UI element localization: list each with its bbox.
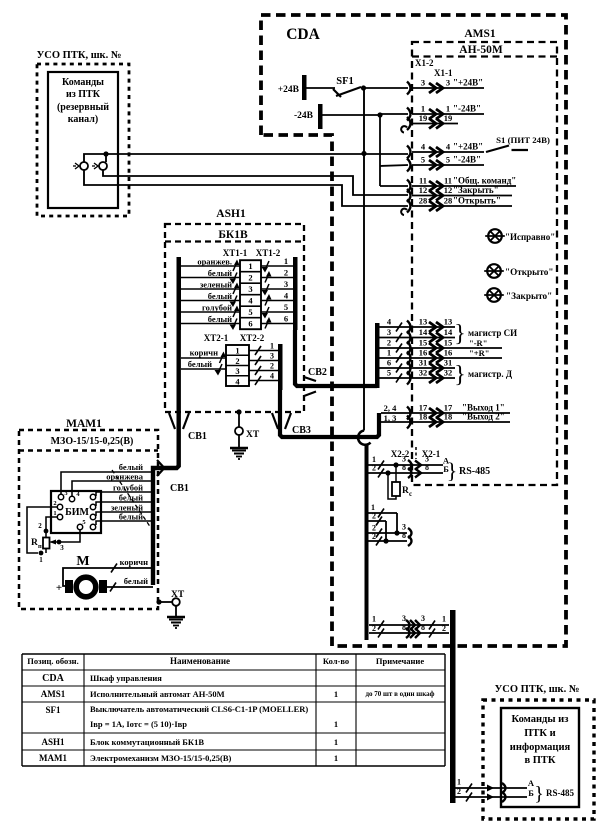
svg-text:ХТ1-2: ХТ1-2 bbox=[256, 248, 281, 258]
svg-text:ХТ: ХТ bbox=[171, 590, 185, 600]
connector X1-1 label bbox=[434, 68, 453, 78]
svg-text:15: 15 bbox=[419, 338, 428, 348]
svg-text:}: } bbox=[454, 362, 466, 388]
svg-text:"Общ. команд": "Общ. команд" bbox=[453, 176, 516, 186]
svg-text:1: 1 bbox=[235, 346, 239, 356]
terminal block XT2-2 label bbox=[240, 333, 265, 343]
resistor Rп (potentiometer) bbox=[31, 517, 58, 564]
svg-text:СВ2: СВ2 bbox=[308, 367, 327, 378]
unit АН-50М dashed outline bbox=[412, 42, 557, 485]
terminal XT of БК1В bbox=[235, 409, 260, 440]
svg-text:ASH1: ASH1 bbox=[41, 737, 65, 747]
svg-text:12: 12 bbox=[419, 185, 428, 195]
svg-text:БК1В: БК1В bbox=[218, 229, 248, 241]
svg-text:6: 6 bbox=[387, 358, 391, 368]
cable gland СВ2 bbox=[304, 367, 327, 396]
label CDA bbox=[286, 26, 320, 43]
svg-text:2: 2 bbox=[457, 787, 461, 796]
БИМ terminals bbox=[53, 490, 95, 530]
connector X1 pin 5 «−24В» bbox=[407, 155, 484, 172]
svg-text:CDA: CDA bbox=[286, 26, 320, 43]
table header bbox=[27, 656, 424, 666]
label «+R» bbox=[469, 348, 489, 358]
cable bar XT1 left bbox=[177, 257, 182, 330]
unit БК1В dashed outline bbox=[165, 224, 304, 412]
wire XT1 row 1 (оранжев.) bbox=[181, 256, 293, 273]
svg-text:белый: белый bbox=[188, 359, 212, 369]
svg-text:28: 28 bbox=[419, 196, 428, 206]
svg-text:2, 4: 2, 4 bbox=[384, 403, 398, 413]
svg-text:(резервный: (резервный bbox=[57, 102, 109, 113]
svg-text:оранжев.: оранжев. bbox=[197, 257, 232, 267]
svg-text:"Закрыть": "Закрыть" bbox=[453, 185, 499, 195]
terminal XT of МАМ1 bbox=[156, 590, 184, 606]
svg-text:канал): канал) bbox=[68, 114, 98, 125]
svg-text:Позиц. обозн.: Позиц. обозн. bbox=[27, 656, 78, 666]
svg-text:1: 1 bbox=[53, 510, 56, 517]
svg-text:Выключатель автоматический CLS: Выключатель автоматический CLS6-C1-1P (M… bbox=[90, 704, 308, 714]
svg-text:31: 31 bbox=[419, 358, 428, 368]
wire motor коричн bbox=[63, 557, 153, 586]
terminal +24В bbox=[278, 75, 307, 100]
svg-text:2: 2 bbox=[372, 624, 376, 633]
cabinet CDA dashed outline bbox=[261, 15, 566, 646]
unit AMS1 label bbox=[464, 28, 496, 40]
svg-text:1: 1 bbox=[387, 348, 391, 358]
wire X2 spur row 3 bbox=[368, 523, 412, 539]
svg-text:"Открыть": "Открыть" bbox=[453, 196, 501, 206]
cable bar XT1 right bbox=[293, 257, 298, 330]
svg-text:3: 3 bbox=[284, 279, 288, 289]
parts table grid bbox=[22, 654, 445, 766]
cable bar XT2 right bbox=[278, 344, 283, 390]
terminal block XT1-1 label bbox=[223, 248, 248, 258]
cable core bar (СВ2 fan-out) bbox=[375, 323, 380, 388]
terminal block XT1-2 label bbox=[256, 248, 281, 258]
svg-text:2: 2 bbox=[372, 512, 376, 521]
wire SF1 to pin 3 bbox=[363, 87, 408, 89]
svg-text:1: 1 bbox=[39, 556, 43, 564]
svg-text:}: } bbox=[454, 321, 466, 347]
svg-text:"Закрыто": "Закрыто" bbox=[506, 291, 552, 301]
connector X1 pin 4 «+24В» bbox=[407, 142, 484, 159]
svg-text:1: 1 bbox=[421, 104, 425, 114]
wire X2 row A bbox=[368, 455, 450, 471]
resistor Rc bbox=[388, 465, 412, 499]
svg-text:11: 11 bbox=[444, 176, 452, 186]
svg-text:6: 6 bbox=[248, 319, 252, 329]
svg-text:-24В: -24В bbox=[294, 111, 314, 121]
svg-text:МЗО-15/15-0,25(В): МЗО-15/15-0,25(В) bbox=[51, 436, 134, 447]
svg-text:Шкаф управления: Шкаф управления bbox=[90, 673, 162, 683]
label БК1В title band bbox=[165, 229, 304, 242]
wire +24V to SF1 bbox=[306, 87, 335, 89]
svg-text:с: с bbox=[409, 490, 412, 498]
connector X1 pin 28 «Открыть» bbox=[401, 196, 512, 216]
table row MAM1 bbox=[39, 753, 338, 763]
svg-text:32: 32 bbox=[419, 368, 428, 378]
svg-text:Блок коммутационный БК1В: Блок коммутационный БК1В bbox=[90, 737, 204, 747]
svg-text:15: 15 bbox=[444, 338, 453, 348]
cable СВ2 (XT1-2 to pins 13..32) bbox=[295, 330, 377, 386]
terminal block XT1 (cells 1-6) bbox=[240, 260, 261, 329]
wire −24V rail to pin 5 bbox=[380, 165, 408, 166]
connector X1 pin 12 «Закрыть» bbox=[407, 185, 512, 202]
svg-text:1: 1 bbox=[284, 256, 288, 266]
svg-text:2: 2 bbox=[235, 356, 239, 366]
svg-text:"+R": "+R" bbox=[469, 348, 489, 358]
svg-text:"-24В": "-24В" bbox=[453, 104, 481, 114]
connector X1 pin 18 «Выход 2» bbox=[381, 412, 510, 429]
svg-text:белый: белый bbox=[208, 314, 232, 324]
dashed enclosure УСО ПТК (bottom-right) bbox=[483, 700, 594, 819]
wire +24V vertical rail down bbox=[363, 88, 365, 431]
svg-text:18: 18 bbox=[419, 412, 428, 422]
connector X2-1 label bbox=[422, 449, 441, 459]
dashed enclosure УСО ПТК (top-left) bbox=[37, 64, 129, 216]
indicator lamp «Исправно» bbox=[485, 229, 555, 243]
terminal block XT2 (cells 1-4) bbox=[226, 345, 249, 386]
svg-text:3: 3 bbox=[421, 78, 425, 88]
svg-text:}: } bbox=[534, 783, 544, 805]
unit МАМ1 label bbox=[66, 418, 102, 430]
svg-text:БИМ: БИМ bbox=[65, 507, 89, 518]
svg-text:СВ1: СВ1 bbox=[170, 483, 189, 494]
brace RS-485 bbox=[447, 458, 490, 483]
svg-text:Кол-во: Кол-во bbox=[323, 656, 349, 666]
svg-text:14: 14 bbox=[419, 327, 428, 337]
cable СВ1 (XT1-1 to МАМ1) bbox=[153, 330, 179, 585]
wire МАМ1 белый (2) bbox=[96, 493, 153, 507]
svg-text:5: 5 bbox=[284, 302, 288, 312]
svg-text:1: 1 bbox=[334, 753, 338, 763]
label АН-50М title band bbox=[412, 44, 557, 57]
wire −24V rail to pin 11 bbox=[380, 185, 408, 187]
svg-text:1: 1 bbox=[372, 615, 376, 624]
svg-text:1: 1 bbox=[334, 719, 338, 729]
terminal −24В bbox=[294, 104, 323, 129]
svg-text:13: 13 bbox=[444, 317, 453, 327]
svg-text:X1-1: X1-1 bbox=[434, 68, 453, 78]
switch S1 (ПИТ 24В) bbox=[486, 135, 550, 152]
svg-text:ХТ2-2: ХТ2-2 bbox=[240, 333, 265, 343]
wire X2 spur pin 1 bbox=[368, 503, 397, 533]
wire XT2 out pin 3 bbox=[249, 352, 278, 366]
unit ASH1 label bbox=[216, 208, 246, 220]
svg-text:3: 3 bbox=[270, 352, 274, 361]
svg-text:информация: информация bbox=[510, 742, 571, 753]
contact K2 (right output contact) bbox=[92, 162, 107, 170]
connector X1 pin 31 wire bbox=[379, 358, 455, 375]
table row ASH1 bbox=[41, 737, 338, 747]
svg-text:SF1: SF1 bbox=[45, 705, 61, 715]
svg-text:19: 19 bbox=[444, 113, 453, 123]
svg-text:16: 16 bbox=[419, 348, 428, 358]
svg-text:AMS1: AMS1 bbox=[41, 689, 66, 699]
svg-text:3: 3 bbox=[421, 614, 425, 623]
wire МАМ1 белый (3) bbox=[96, 512, 153, 526]
label + polarity bbox=[56, 582, 62, 594]
svg-text:МАМ1: МАМ1 bbox=[66, 418, 102, 430]
motor armature bbox=[65, 577, 107, 597]
svg-text:голубой: голубой bbox=[113, 483, 143, 493]
wire X2 spur pin 2 bbox=[368, 512, 386, 542]
svg-text:3: 3 bbox=[446, 78, 450, 88]
svg-text:Команды: Команды bbox=[62, 77, 104, 88]
svg-text:магистр СИ: магистр СИ bbox=[468, 328, 517, 338]
svg-text:СВ1: СВ1 bbox=[188, 431, 207, 442]
svg-text:"Выход 2": "Выход 2" bbox=[462, 412, 505, 422]
svg-text:CDA: CDA bbox=[42, 673, 64, 684]
wire БИМ to Rп terminal 1 bbox=[27, 507, 58, 553]
svg-text:1: 1 bbox=[457, 778, 461, 787]
cable gland СВ3 bbox=[272, 413, 311, 436]
svg-text:1: 1 bbox=[442, 615, 446, 624]
svg-text:1: 1 bbox=[334, 737, 338, 747]
wire X2 spur row 8 bbox=[368, 531, 412, 546]
svg-text:12: 12 bbox=[444, 185, 453, 195]
svg-text:1: 1 bbox=[334, 689, 338, 699]
svg-text:3: 3 bbox=[402, 614, 406, 623]
wire XT1 row 3 (зеленый) bbox=[181, 279, 293, 296]
svg-text:белый: белый bbox=[119, 462, 143, 472]
svg-text:Команды из: Команды из bbox=[512, 714, 569, 725]
Rп wiper to БИМ pin 5 bbox=[50, 530, 81, 552]
node +24V rail at pin4 wire bbox=[361, 151, 366, 156]
wire RS-485 Б bbox=[455, 787, 534, 802]
connector X1 pin 11 «Общ. команд» bbox=[407, 176, 516, 193]
wire МАМ1 зеленый bbox=[96, 503, 153, 517]
wire junction to pin 1 bbox=[380, 113, 408, 115]
svg-text:R: R bbox=[402, 486, 409, 496]
svg-text:3: 3 bbox=[387, 327, 391, 337]
wire XT2 коричн bbox=[181, 348, 226, 364]
block Команды из ПТК (резервный канал) bbox=[48, 72, 118, 208]
brace магистр Д bbox=[454, 362, 513, 388]
svg-text:1: 1 bbox=[446, 104, 450, 114]
ground symbol at БК1В bbox=[230, 435, 248, 459]
node SF1 output bbox=[361, 85, 366, 90]
svg-text:+: + bbox=[56, 582, 62, 594]
node junction over K2 bbox=[103, 151, 108, 162]
svg-text:16: 16 bbox=[444, 348, 453, 358]
svg-text:зеленый: зеленый bbox=[200, 280, 232, 290]
svg-text:2: 2 bbox=[372, 464, 376, 473]
svg-text:МАМ1: МАМ1 bbox=[39, 753, 67, 763]
table row CDA bbox=[42, 673, 162, 684]
wire XT2 out pin 4 bbox=[249, 372, 278, 386]
wire МАМ1 белый (1) bbox=[61, 462, 153, 494]
svg-text:магистр. Д: магистр. Д bbox=[468, 369, 513, 379]
svg-text:6: 6 bbox=[284, 314, 288, 324]
svg-text:5: 5 bbox=[248, 307, 252, 317]
svg-text:коричн: коричн bbox=[190, 348, 218, 358]
svg-text:RS-485: RS-485 bbox=[546, 788, 575, 798]
cores label 2,4 bbox=[384, 403, 398, 413]
label «−R» bbox=[469, 338, 487, 348]
wire RS-485 out row 2 bbox=[369, 623, 449, 638]
svg-text:2: 2 bbox=[270, 362, 274, 371]
svg-text:2: 2 bbox=[53, 500, 56, 507]
svg-text:Исполнительный автомат АН-50М: Исполнительный автомат АН-50М bbox=[90, 689, 225, 699]
svg-text:2: 2 bbox=[38, 522, 42, 530]
breaker SF1 bbox=[333, 76, 361, 97]
table row AMS1 bbox=[41, 689, 435, 699]
svg-text:белый: белый bbox=[124, 576, 148, 586]
wire XT1 row 2 (белый) bbox=[181, 268, 293, 285]
svg-text:"Открыто": "Открыто" bbox=[505, 267, 553, 277]
connector X1 pin 13 wire bbox=[379, 317, 455, 334]
indicator lamp «Открыто» bbox=[484, 264, 553, 278]
contact K1 (left output contact) bbox=[73, 162, 88, 170]
terminal block XT2-1 label bbox=[204, 333, 229, 343]
svg-text:5: 5 bbox=[421, 155, 425, 165]
connector X1 pin 3 «+24В» bbox=[407, 78, 484, 95]
svg-text:"-24В": "-24В" bbox=[453, 155, 481, 165]
svg-text:}: } bbox=[447, 458, 458, 483]
wire K2 bottom to Закрыть run bbox=[103, 170, 408, 195]
svg-text:31: 31 bbox=[444, 358, 453, 368]
svg-text:SF1: SF1 bbox=[336, 76, 354, 87]
svg-text:Примечание: Примечание bbox=[376, 656, 424, 666]
svg-text:2: 2 bbox=[387, 338, 391, 348]
brace магистр СИ bbox=[454, 321, 517, 347]
svg-text:белый: белый bbox=[208, 291, 232, 301]
wire −24V vertical rail bbox=[379, 115, 381, 186]
wire hop loop over СВ3 cable bbox=[358, 431, 370, 445]
cable gland СВ1 (МАМ1 entry) bbox=[157, 460, 189, 494]
block Команды из ПТК и информация в ПТК bbox=[501, 708, 579, 807]
svg-text:"+24В": "+24В" bbox=[453, 142, 483, 152]
cable СВ3 (XT2-2 to pins 17/18) bbox=[280, 390, 379, 437]
motor M label bbox=[76, 554, 89, 569]
svg-text:3: 3 bbox=[235, 366, 239, 376]
svg-text:2: 2 bbox=[372, 532, 376, 541]
svg-text:АН-50М: АН-50М bbox=[459, 44, 503, 56]
label УСО ПТК шкаф (bottom-right) bbox=[495, 684, 580, 695]
svg-text:1: 1 bbox=[270, 342, 274, 351]
wire contacts to +24V rail (long top wire to pin 4) bbox=[84, 154, 408, 162]
block БИМ electromagnet coil bbox=[51, 491, 101, 533]
connector X1 pin 17 «Выход 1» bbox=[381, 403, 510, 420]
svg-text:2: 2 bbox=[248, 273, 252, 283]
svg-text:5: 5 bbox=[446, 155, 450, 165]
svg-text:2: 2 bbox=[442, 624, 446, 633]
connector X2-2 label bbox=[391, 447, 416, 459]
node −24V junction bbox=[377, 112, 382, 117]
svg-text:ASH1: ASH1 bbox=[216, 208, 246, 220]
svg-text:X2-2: X2-2 bbox=[391, 449, 410, 459]
svg-text:5: 5 bbox=[387, 368, 391, 378]
bus RS-485 vertical (right) bbox=[450, 610, 456, 803]
svg-text:М: М bbox=[76, 554, 89, 569]
cable screen dashed mark bbox=[112, 470, 151, 528]
wire МАМ1 голубой bbox=[96, 483, 153, 497]
svg-text:R: R bbox=[31, 538, 38, 548]
svg-text:+24В: +24В bbox=[278, 85, 300, 95]
svg-text:белый: белый bbox=[119, 493, 143, 503]
wire МАМ1 оранжева bbox=[72, 472, 153, 497]
svg-text:AMS1: AMS1 bbox=[464, 28, 496, 40]
wire K1 bottom to Открыть run bbox=[84, 170, 408, 206]
svg-text:8: 8 bbox=[402, 463, 406, 472]
svg-text:19: 19 bbox=[419, 113, 428, 123]
connector X1 pin 15 wire bbox=[379, 338, 502, 355]
connector X1 pin 1 «−24В» bbox=[407, 104, 484, 121]
svg-text:8: 8 bbox=[425, 463, 429, 472]
svg-text:в ПТК: в ПТК bbox=[524, 755, 555, 766]
wire XT2 out pin 2 bbox=[249, 362, 278, 376]
node R_c tap A bbox=[393, 462, 398, 467]
wire motor белый bbox=[107, 576, 153, 592]
wire RS-485 А bbox=[455, 778, 535, 794]
svg-text:п: п bbox=[38, 543, 42, 550]
wire −24V to junction bbox=[322, 114, 380, 116]
connector X1 pin 14 wire bbox=[379, 327, 455, 344]
wire XT2 out pin 1 bbox=[249, 342, 278, 356]
svg-text:коричн: коричн bbox=[120, 557, 148, 567]
wire XT1 row 6 (белый) bbox=[181, 314, 293, 331]
svg-text:ПТК и: ПТК и bbox=[524, 728, 555, 739]
svg-text:4: 4 bbox=[270, 372, 274, 381]
connector X1 pin 32 wire bbox=[379, 368, 455, 385]
svg-text:до 70 шт в один шкаф: до 70 шт в один шкаф bbox=[365, 690, 434, 698]
connector X1 pin 16 wire bbox=[379, 348, 502, 365]
wire RS-485 out row 1 bbox=[369, 614, 449, 630]
svg-text:Iвр = 1А, Iотс = (5 10)·: Iвр = 1А, Iотс = (5 10)·Iвр bbox=[90, 719, 187, 729]
svg-text:8: 8 bbox=[421, 623, 425, 632]
svg-text:"+24В": "+24В" bbox=[453, 78, 483, 88]
brace RS-485 (bottom) bbox=[534, 783, 574, 805]
svg-text:1: 1 bbox=[248, 261, 252, 271]
svg-text:белый: белый bbox=[119, 512, 143, 522]
svg-text:УСО ПТК, шк. №: УСО ПТК, шк. № bbox=[37, 50, 122, 61]
svg-text:СВ3: СВ3 bbox=[292, 425, 311, 436]
svg-text:8: 8 bbox=[402, 623, 406, 632]
svg-text:голубой: голубой bbox=[202, 303, 232, 313]
svg-text:32: 32 bbox=[444, 368, 453, 378]
svg-text:ХТ2-1: ХТ2-1 bbox=[204, 333, 229, 343]
connector X1 pin 19 bbox=[401, 113, 458, 133]
bus X2 vertical (left) bbox=[365, 444, 369, 640]
svg-text:Электромеханизм МЗО-15/15-0,2: Электромеханизм МЗО-15/15-0,25(В) bbox=[90, 753, 231, 763]
svg-text:3: 3 bbox=[248, 284, 252, 294]
svg-text:X1-2: X1-2 bbox=[415, 58, 434, 68]
svg-text:RS-485: RS-485 bbox=[459, 466, 490, 477]
svg-text:ХТ: ХТ bbox=[246, 430, 260, 440]
connector X1-2 label bbox=[415, 58, 434, 68]
ground symbol at МАМ1 bbox=[167, 606, 185, 628]
label МЗО-15/15-0,25(В) bbox=[19, 436, 158, 451]
svg-text:белый: белый bbox=[208, 268, 232, 278]
svg-text:14: 14 bbox=[444, 327, 453, 337]
node R_c tap B bbox=[385, 470, 390, 475]
wire XT1 row 5 (голубой) bbox=[181, 302, 293, 319]
svg-text:3: 3 bbox=[60, 544, 64, 552]
svg-text:Наименование: Наименование bbox=[170, 656, 230, 666]
label УСО ПТК (резервный канал) шкаф bbox=[37, 50, 122, 61]
wire X2 row B bbox=[368, 463, 449, 478]
table row SF1 bbox=[45, 704, 338, 729]
svg-text:28: 28 bbox=[444, 196, 453, 206]
svg-text:из ПТК: из ПТК bbox=[66, 89, 101, 100]
unit МЗО dashed outline bbox=[19, 430, 158, 609]
svg-text:"-R": "-R" bbox=[469, 338, 487, 348]
svg-text:"Исправно": "Исправно" bbox=[505, 232, 555, 242]
indicator lamp «Закрыто» bbox=[484, 288, 552, 302]
svg-text:18: 18 bbox=[444, 412, 453, 422]
svg-text:S1 (ПИТ 24В): S1 (ПИТ 24В) bbox=[496, 135, 550, 145]
